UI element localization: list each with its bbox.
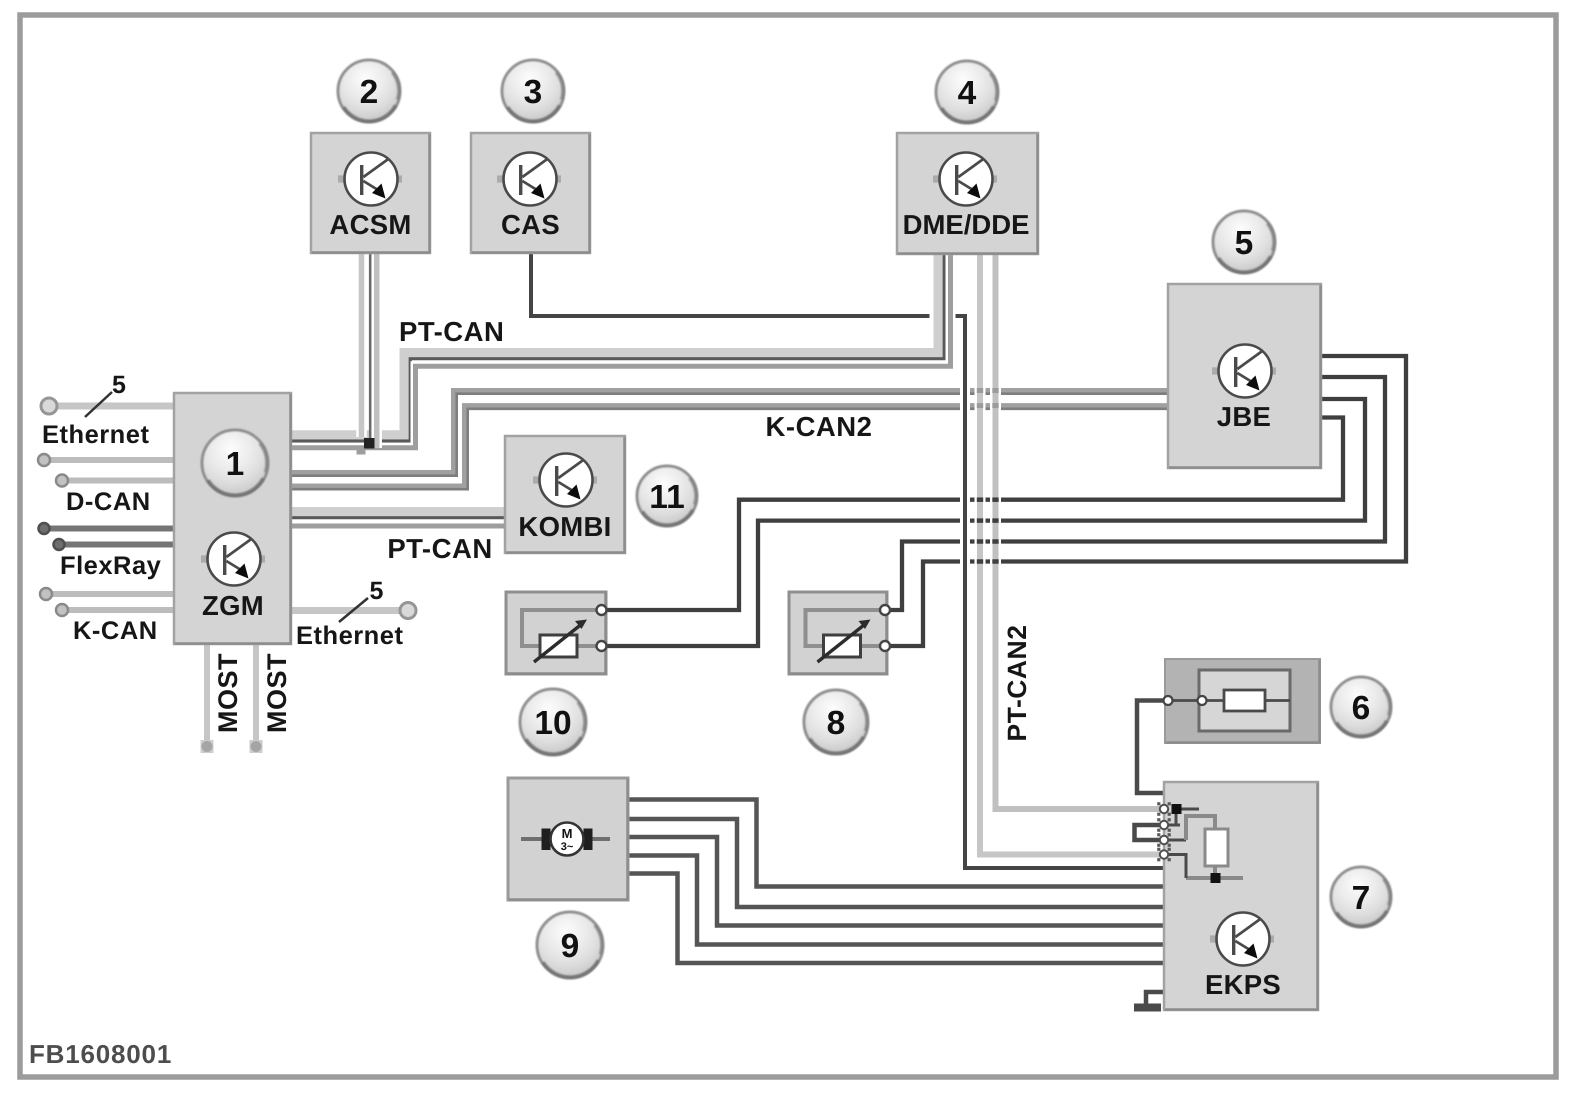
svg-text:MOST: MOST <box>262 653 292 733</box>
wire PT-CAN line 1 ZGM to DME/DDE <box>291 253 938 435</box>
circled callout number 2 <box>338 60 400 122</box>
svg-text:8: 8 <box>827 705 846 742</box>
EKPS connector terminals <box>1157 802 1160 805</box>
svg-text:D-CAN: D-CAN <box>66 488 151 516</box>
ECU transistor icon ZGM <box>201 533 265 586</box>
svg-text:PT-CAN: PT-CAN <box>399 316 504 347</box>
wire PT-CAN2 line 2 DME/DDE to EKPS <box>980 253 1164 855</box>
svg-text:M: M <box>562 826 573 841</box>
circled callout number 5 <box>1213 211 1275 273</box>
ECU transistor icon DME/DDE <box>933 153 997 206</box>
circled callout number 1 <box>202 430 268 496</box>
wire fuel pump motor lead 3 to EKPS <box>628 837 1164 926</box>
wire JBE pin3 to fuel sensor 10 lower terminal <box>601 399 1365 646</box>
fuse F6 inner <box>1199 670 1290 731</box>
svg-text:ACSM: ACSM <box>329 209 411 240</box>
ECU transistor icon KOMBI <box>533 454 597 507</box>
svg-text:CAS: CAS <box>501 209 560 240</box>
circled callout number 10 <box>520 689 586 755</box>
svg-text:K-CAN2: K-CAN2 <box>766 411 873 442</box>
wire MOST line 1 from ZGM <box>204 644 210 741</box>
svg-text:Ethernet: Ethernet <box>296 622 403 650</box>
crossing stubs on K-CAN2 and sensor wires <box>977 388 983 393</box>
wire CAS to EKPS (terminal 15 wake-up) <box>531 253 1164 868</box>
svg-text:7: 7 <box>1352 880 1371 917</box>
svg-text:Ethernet: Ethernet <box>42 421 149 449</box>
wire fuel pump motor lead 4 to EKPS <box>628 856 1164 945</box>
fuse box F6 outer <box>1165 659 1320 743</box>
svg-text:3~: 3~ <box>561 841 574 853</box>
circled callout number 8 <box>804 690 868 754</box>
svg-text:DME/DDE: DME/DDE <box>903 209 1030 240</box>
control unit U11 KOMBI box <box>505 436 625 553</box>
svg-text:5: 5 <box>112 371 126 399</box>
circled callout number 4 <box>936 61 998 123</box>
control unit U7 EKPS box <box>1164 782 1318 1010</box>
wire Ethernet right from ZGM <box>291 607 403 614</box>
svg-text:3: 3 <box>524 74 543 111</box>
label leader 5 right <box>339 598 368 622</box>
svg-text:EKPS: EKPS <box>1205 969 1281 1000</box>
motor symbol M9 (electric fuel pump) <box>521 837 610 841</box>
wire fuel pump motor lead 1 to EKPS <box>628 800 1164 887</box>
variable resistor (fuel sender) B8 <box>806 610 886 646</box>
wire fuel pump motor lead 2 to EKPS <box>628 819 1164 907</box>
svg-text:10: 10 <box>534 705 571 742</box>
svg-text:4: 4 <box>958 75 977 112</box>
wire fuel pump motor lead 5 to EKPS <box>628 874 1164 964</box>
svg-text:5: 5 <box>370 577 384 605</box>
EKPS internal relay/resistor circuit <box>1176 808 1199 811</box>
ECU transistor icon JBE <box>1212 345 1276 398</box>
ECU transistor icon EKPS <box>1210 913 1274 966</box>
wire PT-CAN2 line 1 DME/DDE to EKPS <box>996 253 1165 809</box>
wire PT-CAN line 2 ZGM to KOMBI <box>291 521 505 531</box>
svg-text:KOMBI: KOMBI <box>518 511 611 542</box>
svg-text:PT-CAN: PT-CAN <box>387 533 492 564</box>
wire PT-CAN line 2 ZGM to DME/DDE <box>291 253 951 448</box>
node junction J1 <box>1172 804 1182 814</box>
ground symbol <box>1134 1004 1161 1012</box>
wire FlexRay line 2 <box>61 542 176 548</box>
wire JBE pin4 to fuel sensor 10 upper terminal <box>601 418 1343 611</box>
junction node ACSM/PT-CAN <box>357 446 366 455</box>
circled callout number 7 <box>1331 867 1391 927</box>
wire EKPS to ground <box>1146 992 1164 1005</box>
ECU transistor icon CAS <box>497 153 561 206</box>
wire D-CAN line 1 <box>46 457 176 463</box>
control unit U4 DME/DDE box <box>897 133 1038 254</box>
wire FlexRay line 1 <box>46 526 176 532</box>
svg-text:2: 2 <box>360 74 379 111</box>
svg-text:5: 5 <box>1235 225 1254 262</box>
svg-text:11: 11 <box>649 479 684 516</box>
wire D-CAN line 2 <box>63 478 176 484</box>
control unit U1 ZGM box <box>174 393 291 644</box>
svg-text:MOST: MOST <box>213 653 243 733</box>
svg-text:6: 6 <box>1352 690 1371 727</box>
wire MOST line 2 from ZGM <box>253 644 259 741</box>
wire K-CAN2 line 1 ZGM to JBE <box>291 391 1168 473</box>
svg-text:PT-CAN2: PT-CAN2 <box>1002 625 1032 742</box>
wire EKPS terminal 2 to terminal 3 jumper <box>1135 825 1165 840</box>
circled callout number 9 <box>537 912 603 978</box>
svg-text:9: 9 <box>561 928 580 965</box>
fuel level sensor B8 box <box>789 592 887 674</box>
control unit U3 CAS box <box>471 133 590 253</box>
circled callout number 6 <box>1331 677 1391 737</box>
wire K-CAN2 line 2 ZGM to JBE <box>291 406 1168 486</box>
node junction J2 <box>1211 873 1221 883</box>
variable resistor (fuel sender) B10 <box>522 610 602 646</box>
resistor R1 inside EKPS <box>1205 829 1228 866</box>
circled callout number 11 <box>637 466 697 526</box>
wire JBE pin1 to fuel sensor 8 lower terminal <box>884 356 1406 646</box>
control unit U2 ACSM box <box>311 133 430 253</box>
wire JBE pin2 to fuel sensor 8 upper terminal <box>884 377 1385 610</box>
svg-text:ZGM: ZGM <box>202 590 264 621</box>
wire K-CAN line 2 <box>64 607 176 613</box>
fuel level sensor B10 box <box>506 592 606 674</box>
wire ACSM PT-CAN stub line 1 <box>356 253 367 437</box>
ECU transistor icon ACSM <box>338 153 402 206</box>
wire K-CAN line 1 <box>48 591 176 597</box>
fuel pump M9 box <box>508 778 628 900</box>
circled callout number 3 <box>502 60 564 122</box>
wire ACSM PT-CAN stub line 2 <box>371 253 382 448</box>
wire Ethernet left to ZGM <box>52 403 176 410</box>
label leader 5 left <box>85 392 112 417</box>
svg-text:JBE: JBE <box>1217 401 1271 432</box>
control unit U5 JBE box <box>1168 284 1321 468</box>
svg-text:FlexRay: FlexRay <box>60 552 162 580</box>
svg-text:K-CAN: K-CAN <box>73 617 158 645</box>
wire PT-CAN line 1 ZGM to KOMBI <box>291 503 505 520</box>
svg-text:1: 1 <box>226 446 245 483</box>
svg-text:FB1608001: FB1608001 <box>29 1039 172 1069</box>
wire fuse box 6 to EKPS supply <box>1137 701 1167 794</box>
